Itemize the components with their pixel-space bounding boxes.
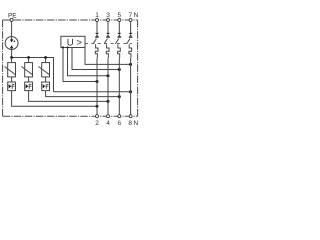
node N-pole lower junction bbox=[129, 90, 132, 93]
svg-text:5: 5 bbox=[117, 12, 121, 19]
wire branch1 to pole 1 bbox=[12, 91, 97, 107]
node pole3 monitor junction bbox=[118, 68, 121, 71]
wire PE terminal to spark gap bbox=[11, 22, 13, 37]
wire branch3 to pole 3 bbox=[46, 91, 120, 97]
terminal 2 bbox=[96, 115, 99, 118]
svg-text:4: 4 bbox=[106, 120, 110, 127]
pole 3: thermal disconnector and switch contact bbox=[115, 22, 121, 115]
wire U> pin2 to pole 2 bbox=[68, 48, 109, 76]
enclosure border bottom (dash-dot) bbox=[3, 115, 138, 117]
node poleN monitor junction bbox=[129, 63, 132, 66]
node pole1 lower junction bbox=[96, 105, 99, 108]
enclosure border left (dash-dot) bbox=[2, 20, 4, 116]
terminal 3 bbox=[107, 19, 110, 22]
node pole1 monitor junction bbox=[96, 80, 99, 83]
gas discharge tube G3 bbox=[42, 77, 50, 91]
node U> pin1 bbox=[62, 46, 64, 48]
svg-text:3: 3 bbox=[106, 12, 110, 19]
pole 2: thermal disconnector and switch contact bbox=[104, 22, 110, 115]
terminal 1 bbox=[96, 19, 99, 22]
terminal 6 bbox=[118, 115, 121, 118]
svg-text:8: 8 bbox=[128, 120, 132, 127]
node pole2 monitor junction bbox=[107, 74, 110, 77]
pole N: thermal disconnector and switch contact bbox=[127, 22, 133, 115]
svg-text:7: 7 bbox=[128, 12, 132, 19]
varistor R2 bbox=[22, 58, 34, 77]
node pole3 lower junction bbox=[118, 95, 121, 98]
terminal 5 bbox=[118, 19, 121, 22]
voltage monitor U1 (U>) bbox=[61, 36, 85, 47]
wire bus lower run to N pole bbox=[54, 91, 131, 93]
circuit schematic: 4-pole surge protective device (3+NPE) with U> monitor bbox=[0, 0, 140, 140]
enclosure border top (dash-dot) bbox=[3, 19, 138, 21]
gas discharge tube G2 bbox=[25, 77, 33, 91]
wire U> pin1 to pole 1 bbox=[63, 48, 97, 82]
node bus-branch3 bbox=[44, 56, 47, 59]
node pole2 lower junction bbox=[107, 100, 110, 103]
enclosure border right (dash-dot) bbox=[137, 20, 139, 116]
svg-text:N: N bbox=[134, 12, 139, 19]
varistor R1 bbox=[5, 58, 17, 77]
terminal 7 bbox=[129, 19, 132, 22]
terminal 4 bbox=[107, 115, 110, 118]
wire U> pin3 to pole 3 bbox=[72, 48, 119, 70]
dashed trip linkage line bbox=[85, 42, 132, 44]
terminal 8 bbox=[129, 115, 132, 118]
svg-text:N: N bbox=[133, 120, 138, 127]
terminal PE bbox=[10, 19, 13, 22]
svg-text:2: 2 bbox=[95, 120, 99, 127]
wire branch2 to pole 2 bbox=[29, 91, 108, 102]
svg-text:6: 6 bbox=[117, 120, 121, 127]
varistor R3 bbox=[39, 58, 51, 77]
wire common bus bbox=[12, 58, 54, 92]
gas discharge tube G1 bbox=[8, 77, 16, 91]
node bus-branch2 bbox=[27, 56, 30, 59]
wire U> corner pin to pole N bbox=[85, 48, 131, 65]
spark gap F1 (N-PE gas discharge tube in circle) bbox=[5, 37, 18, 50]
svg-text:1: 1 bbox=[95, 12, 99, 19]
svg-text:U >: U > bbox=[67, 37, 83, 48]
node bus-branch1 bbox=[10, 56, 13, 59]
wire spark gap to bus bbox=[11, 50, 13, 58]
node U> pin2 bbox=[66, 46, 68, 48]
pole 1: thermal disconnector and switch contact bbox=[93, 22, 99, 115]
